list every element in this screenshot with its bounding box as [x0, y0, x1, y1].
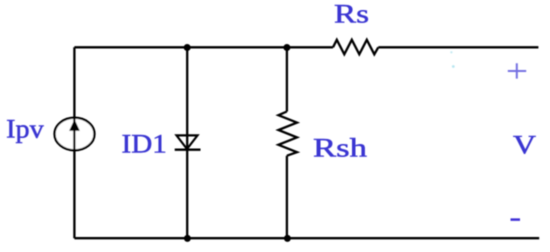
wire shunt branch bottom [286, 156, 288, 239]
terminal minus sign [511, 218, 521, 221]
wire shunt branch top [286, 47, 288, 111]
diode D1 triangle [177, 135, 198, 149]
wire left branch [73, 47, 75, 238]
svg-text:V: V [513, 131, 536, 160]
wire top: left corner to Rs [74, 46, 333, 48]
junction node: shunt bottom [284, 235, 291, 242]
resistor Rsh zigzag [278, 112, 297, 156]
current source arrowhead [69, 119, 80, 131]
svg-text:ID1: ID1 [122, 129, 167, 158]
svg-text:Rs: Rs [334, 0, 369, 29]
current source wire through [73, 117, 75, 151]
wire bottom [74, 237, 539, 239]
stray speck 2 [452, 65, 455, 68]
svg-text:Rsh: Rsh [313, 134, 367, 163]
junction node: diode bottom [184, 235, 191, 242]
resistor Rs zigzag [333, 40, 378, 55]
junction node: shunt top [283, 44, 290, 51]
svg-text:Ipv: Ipv [6, 115, 44, 144]
terminal plus sign [508, 63, 526, 78]
wire diode branch [186, 47, 188, 238]
diode D1 cathode bar [175, 148, 201, 150]
stray speck 1 [450, 51, 452, 53]
wire top: Rs to right terminal [378, 46, 538, 48]
current source Ipv circle [55, 118, 95, 151]
junction node: diode top [184, 44, 191, 51]
